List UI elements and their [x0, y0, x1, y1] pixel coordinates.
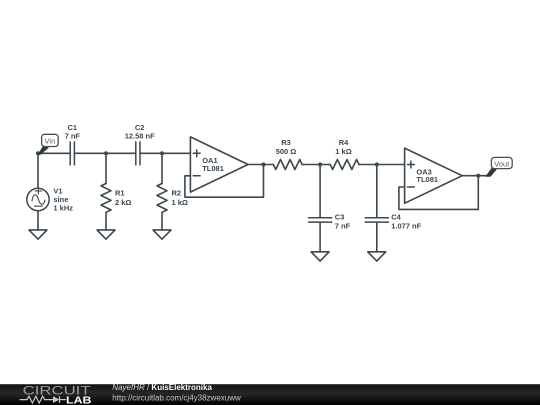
svg-text:TL081: TL081	[202, 164, 224, 173]
svg-text:12.58 nF: 12.58 nF	[125, 132, 155, 141]
svg-text:500 Ω: 500 Ω	[276, 147, 297, 156]
svg-text:LAB: LAB	[66, 395, 92, 405]
svg-text:1 kΩ: 1 kΩ	[172, 198, 188, 207]
svg-text:Vout: Vout	[494, 159, 510, 168]
svg-text:R2: R2	[172, 189, 182, 198]
svg-text:http://circuitlab.com/cj4y38zw: http://circuitlab.com/cj4y38zwexuww	[112, 393, 241, 402]
svg-text:1.077 nF: 1.077 nF	[391, 222, 421, 231]
svg-text:1 kHz: 1 kHz	[53, 203, 73, 212]
svg-text:C3: C3	[335, 212, 345, 221]
svg-text:TL081: TL081	[416, 175, 438, 184]
svg-text:R1: R1	[115, 189, 125, 198]
svg-text:7 nF: 7 nF	[65, 132, 81, 141]
svg-text:7 nF: 7 nF	[335, 222, 351, 231]
svg-text:NayefHR / KuisElektronika: NayefHR / KuisElektronika	[112, 383, 212, 392]
svg-text:Vin: Vin	[45, 137, 56, 146]
svg-text:C4: C4	[391, 212, 401, 221]
svg-text:1 kΩ: 1 kΩ	[335, 147, 351, 156]
svg-text:2 kΩ: 2 kΩ	[115, 198, 131, 207]
